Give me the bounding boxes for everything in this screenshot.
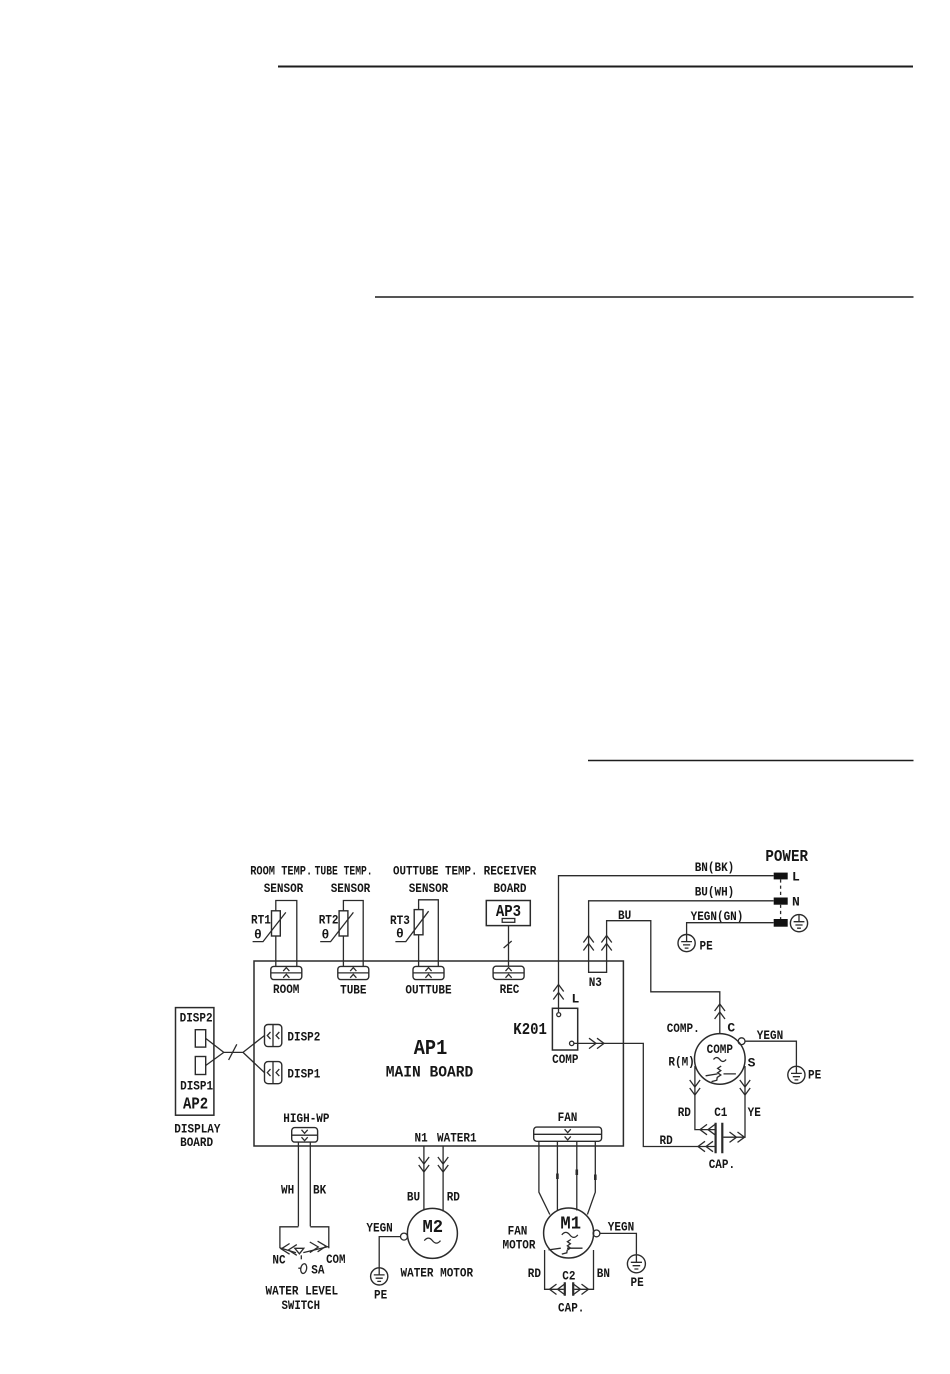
svg-text:COMP: COMP [707,1042,734,1057]
fan wire 3 [576,1141,578,1210]
svg-text:SA: SA [311,1263,324,1278]
connector HIGH-WP [292,1128,318,1143]
svg-text:R(M): R(M) [668,1055,694,1070]
arrows on compressor C wire [715,1004,725,1019]
svg-text:ROOM TEMP.: ROOM TEMP. [250,864,312,879]
arrows on WATER1 wire [438,1157,448,1172]
slash mark display bundle [229,1044,237,1060]
svg-text:L: L [792,870,800,885]
connector ROOM [271,966,302,979]
svg-text:FAN: FAN [558,1110,578,1125]
terminal N [774,898,788,905]
arrows on R wire [690,1080,700,1095]
arrows on N1 wire [419,1157,429,1172]
wire loop tube sensor [343,901,363,967]
wire WATER1 to M2 [442,1146,444,1212]
svg-text:AP3: AP3 [496,902,521,921]
svg-text:SENSOR: SENSOR [264,881,304,896]
svg-text:WATER MOTOR: WATER MOTOR [401,1266,474,1281]
earth symbol PE (M2) [371,1268,388,1285]
svg-text:DISP1: DISP1 [180,1079,213,1094]
relay K201 [552,1008,577,1050]
svg-text:BOARD: BOARD [494,881,527,896]
crimp mark fan wire 3 [575,1170,578,1176]
connector FAN [534,1127,602,1141]
svg-text:YEGN(GN): YEGN(GN) [691,909,744,924]
svg-text:COMP: COMP [552,1052,579,1067]
water level switch contacts [280,1241,329,1274]
svg-text:N1: N1 [415,1131,428,1146]
crimp mark fan wire 2 [556,1174,559,1180]
svg-text:AP2: AP2 [183,1095,208,1114]
svg-text:REC: REC [500,982,520,997]
svg-text:DISP1: DISP1 [287,1067,320,1082]
label FAN MOTOR [503,1224,536,1253]
svg-text:OUTTUBE: OUTTUBE [405,983,451,998]
slash mark rec wire [504,941,512,948]
svg-text:DISP2: DISP2 [180,1011,213,1026]
motor M1 [544,1208,594,1258]
horizontal rule lower [588,760,914,762]
svg-text:HIGH-WP: HIGH-WP [283,1111,329,1126]
wire M1 to PE [600,1233,637,1254]
svg-text:RT2: RT2 [319,913,339,928]
wire YEGN(GN) earth to PE [687,923,774,935]
earth symbol (power) [790,915,807,932]
connector TUBE [338,966,369,979]
wire loop room sensor [276,901,297,967]
svg-text:TUBE: TUBE [340,983,367,998]
earth symbol PE (compressor) [788,1066,805,1083]
svg-text:BU(WH): BU(WH) [695,885,735,900]
dashed link between terminals [780,879,782,919]
horizontal rule top [278,66,913,68]
fan wire 2 [556,1141,558,1210]
wire WH [297,1142,299,1226]
svg-text:DISP2: DISP2 [287,1030,320,1045]
arrows on R horizontal [700,1124,715,1134]
svg-text:C: C [727,1021,735,1036]
motor M2 [407,1208,457,1258]
svg-text:COM: COM [326,1252,346,1267]
svg-text:RD: RD [447,1190,460,1205]
svg-text:θ: θ [322,928,330,943]
svg-text:WH: WH [281,1183,294,1198]
svg-text:SWITCH: SWITCH [282,1298,321,1313]
arrows on BU(WH) wire [583,936,593,951]
wire AP3 to REC [508,926,510,967]
arrows on C2 right [574,1284,589,1294]
svg-text:YEGN: YEGN [366,1221,392,1236]
svg-text:YEGN: YEGN [608,1220,634,1235]
arrows on RD bottom wire [698,1141,713,1151]
crimp mark fan wire 4 [594,1175,597,1181]
resistor RT1 [253,911,286,942]
terminal L [774,873,788,880]
wire bundle AP2 to DISP connectors [206,1036,265,1073]
arrows on K201 out wire [589,1038,604,1048]
svg-text:S: S [748,1056,756,1071]
wire BK [309,1142,311,1226]
svg-text:M1: M1 [560,1215,581,1235]
svg-text:POWER: POWER [765,847,808,866]
svg-text:PE: PE [374,1288,387,1303]
arrows on S wire [740,1080,750,1095]
svg-text:RECEIVER: RECEIVER [484,864,537,879]
svg-text:AP1: AP1 [414,1038,448,1061]
svg-text:WATER LEVEL: WATER LEVEL [266,1284,339,1299]
svg-text:N: N [792,895,800,910]
arrows on BN wire [553,985,563,1000]
wire M2 to PE [379,1237,400,1268]
arrows on C2 left [550,1284,565,1294]
svg-text:PE: PE [631,1275,644,1290]
connector DISP1 (main board) [265,1062,282,1084]
svg-text:N3: N3 [589,975,602,990]
wire M1 BN to C2 [574,1250,593,1289]
svg-text:NC: NC [272,1252,285,1267]
svg-text:OUTTUBE TEMP.: OUTTUBE TEMP. [393,864,478,879]
svg-text:PE: PE [808,1068,821,1083]
fan wire 4 [587,1141,595,1214]
svg-text:RD: RD [660,1133,673,1148]
svg-text:YE: YE [748,1105,761,1120]
connector DISP2 (main board) [265,1025,282,1047]
arrows on S horizontal [730,1132,745,1142]
svg-text:PE: PE [700,939,713,954]
receiver board AP3 [486,901,530,926]
svg-text:RD: RD [678,1105,691,1120]
svg-text:SENSOR: SENSOR [331,881,371,896]
wire M1 RD to C2 [545,1250,564,1289]
horizontal rule middle [375,296,914,298]
connector OUTTUBE [413,966,444,979]
wire BU from N3 to compressor C [607,921,720,1034]
wire R(M) to C1 [695,1066,715,1130]
compressor motor COMP [695,1034,746,1085]
svg-text:FAN: FAN [508,1224,528,1239]
svg-text:θ: θ [254,928,262,943]
svg-text:MAIN BOARD: MAIN BOARD [386,1064,474,1082]
pin circle M2 YEGN [401,1233,408,1240]
svg-text:ROOM: ROOM [273,982,300,997]
wire K201 COMP out to capacitor C1 [574,1043,715,1146]
fan wire 1 [539,1141,550,1214]
connector N3 [589,961,607,972]
svg-text:SENSOR: SENSOR [409,881,449,896]
resistor RT3 [395,910,428,942]
svg-text:MOTOR: MOTOR [503,1238,536,1253]
pin circle compressor S-YEGN [738,1038,745,1045]
water level switch body [280,1227,329,1248]
capacitor C2 [565,1282,573,1296]
svg-text:L: L [572,992,580,1007]
svg-text:BK: BK [313,1183,326,1198]
wire compressor to PE [745,1041,796,1066]
wire BU(WH) N to N3 [589,901,774,961]
connector REC [493,966,524,979]
svg-text:CAP.: CAP. [558,1301,584,1316]
svg-text:K201: K201 [513,1020,547,1039]
svg-text:WATER1: WATER1 [437,1131,477,1146]
resistor RT2 [320,911,353,942]
wire N1 to M2 [423,1146,425,1210]
earth symbol PE (M1) [627,1255,645,1273]
svg-text:BU: BU [407,1190,420,1205]
svg-text:CAP.: CAP. [709,1157,735,1172]
svg-text:COMP.: COMP. [667,1021,700,1036]
svg-text:RT1: RT1 [251,913,271,928]
svg-text:C1: C1 [714,1105,727,1120]
arrows on BU wire [601,936,611,951]
svg-text:BN: BN [597,1266,610,1281]
pin circle M1 YEGN [593,1230,600,1237]
capacitor C1 [716,1123,723,1153]
svg-text:RD: RD [528,1266,541,1281]
svg-text:TUBE TEMP.: TUBE TEMP. [315,864,373,879]
main board AP1 outline [254,961,623,1146]
svg-text:BN(BK): BN(BK) [695,860,735,875]
svg-text:BOARD: BOARD [180,1135,213,1150]
terminal earth [774,919,788,927]
svg-text:θ: θ [396,927,404,942]
wire loop outtube sensor [419,900,439,967]
svg-text:C2: C2 [562,1269,575,1284]
wire BN(BK) L to K201 [559,876,774,1012]
wire S to C1 [723,1066,745,1137]
earth symbol PE (power side) [678,935,695,952]
svg-text:M2: M2 [423,1218,444,1238]
display board AP2 [176,1008,214,1116]
